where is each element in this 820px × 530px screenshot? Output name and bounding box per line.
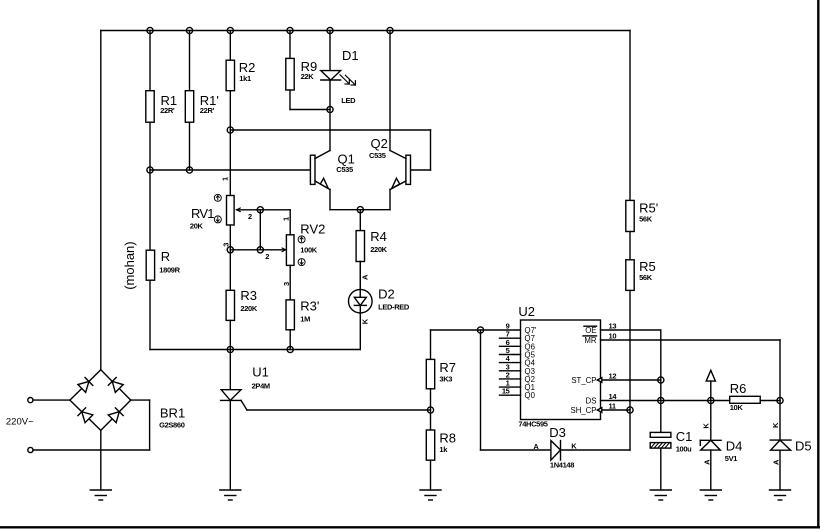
wire Q2 collector feed bbox=[389, 31, 391, 151]
svg-text:56K: 56K bbox=[639, 215, 653, 224]
wire RV2 wiper row bbox=[230, 248, 285, 252]
wire wiper to RV2 pin1 bbox=[260, 210, 290, 235]
terminal AC1 bbox=[28, 398, 33, 403]
svg-text:100K: 100K bbox=[300, 245, 317, 254]
wire D3 cathode net bbox=[561, 449, 631, 451]
wire R1' bottom bbox=[189, 122, 191, 170]
svg-text:D1: D1 bbox=[342, 48, 359, 63]
svg-text:1: 1 bbox=[221, 177, 230, 181]
junction RV2 wiper tee bbox=[257, 247, 263, 253]
label D4 anode A bbox=[702, 459, 711, 465]
junction R1' base node bbox=[186, 167, 192, 173]
resistor R5 bbox=[626, 259, 656, 290]
wire AC input 1 bbox=[33, 399, 70, 401]
label RV1 pin 3 bbox=[222, 243, 231, 247]
U2 pin 11 SH_CP bbox=[571, 402, 631, 416]
resistor R5' bbox=[626, 200, 658, 231]
U2 pin 10 MR bbox=[583, 332, 780, 346]
svg-text:1k1: 1k1 bbox=[239, 74, 251, 83]
svg-text:11: 11 bbox=[609, 402, 616, 411]
svg-text:3K3: 3K3 bbox=[439, 374, 452, 383]
wire lower rail bbox=[150, 349, 360, 351]
svg-text:SH_CP: SH_CP bbox=[571, 406, 597, 415]
U2 pin 1 Q1 bbox=[500, 379, 535, 393]
wire R5 bottom bbox=[629, 290, 631, 450]
wire R1' top bbox=[189, 31, 191, 91]
label (mohan) bbox=[122, 241, 137, 289]
capacitor C1 bbox=[650, 429, 692, 453]
resistor R6 bbox=[730, 381, 761, 412]
wire R7 bottom bbox=[430, 389, 432, 430]
wire U1 cathode bbox=[229, 400, 231, 490]
svg-text:R6: R6 bbox=[730, 381, 747, 396]
svg-text:22R': 22R' bbox=[200, 106, 215, 115]
resistor R1 bbox=[146, 91, 177, 123]
ground R8 bbox=[420, 490, 441, 500]
junction top bus bbox=[287, 27, 293, 33]
wire D2 bottom bbox=[359, 305, 361, 349]
net flag above D4 bbox=[706, 370, 715, 381]
transistor Q2 bbox=[369, 136, 411, 189]
svg-text:D2: D2 bbox=[378, 287, 395, 302]
svg-text:1M: 1M bbox=[300, 315, 310, 324]
junction R1 base node bbox=[147, 167, 153, 173]
bridge rectifier BR1 bbox=[70, 370, 185, 431]
svg-text:1k: 1k bbox=[439, 445, 448, 454]
label RV2 pin 3 bbox=[282, 282, 291, 286]
svg-text:R2: R2 bbox=[239, 60, 256, 75]
label D3 anode A bbox=[533, 442, 539, 451]
svg-text:2P4M: 2P4M bbox=[252, 381, 270, 390]
wire D5 bottom bbox=[779, 450, 781, 490]
svg-text:12: 12 bbox=[609, 372, 617, 381]
junction RV1 wiper node bbox=[257, 207, 263, 213]
diode D5 bbox=[770, 439, 811, 454]
junction emitter node bbox=[357, 207, 363, 213]
svg-text:LED-RED: LED-RED bbox=[378, 302, 410, 311]
wire R1 bottom bbox=[149, 122, 151, 170]
svg-text:R3': R3' bbox=[300, 298, 319, 313]
wire Q1 base net bbox=[150, 169, 310, 171]
svg-text:D4: D4 bbox=[726, 438, 743, 453]
resistor R3' bbox=[286, 298, 319, 330]
svg-text:13: 13 bbox=[609, 322, 617, 331]
svg-text:C535: C535 bbox=[369, 151, 386, 160]
svg-text:2: 2 bbox=[248, 212, 252, 221]
label RV1 pin 2 bbox=[248, 212, 252, 221]
svg-text:10K: 10K bbox=[730, 403, 744, 412]
wire RV2 bottom bbox=[289, 265, 291, 300]
svg-text:(mohan): (mohan) bbox=[122, 241, 137, 289]
wire AC input 2 bbox=[33, 449, 150, 451]
U2 pin 3 Q3 bbox=[500, 362, 535, 376]
resistor R bbox=[146, 249, 180, 280]
wire D1 cathode / Q1 collector bbox=[329, 80, 331, 151]
svg-text:220K: 220K bbox=[370, 245, 387, 254]
junction SH_CP node bbox=[627, 407, 633, 413]
wire R bottom bbox=[149, 280, 151, 349]
svg-text:R7: R7 bbox=[439, 360, 456, 375]
resistor R8 bbox=[426, 430, 456, 460]
resistor R3 bbox=[226, 288, 258, 320]
junction R6 right node bbox=[777, 397, 783, 403]
wire D3 anode net bbox=[481, 330, 551, 450]
junction gate node bbox=[427, 407, 433, 413]
svg-text:10: 10 bbox=[609, 332, 617, 341]
svg-text:OE: OE bbox=[585, 326, 596, 335]
svg-text:15: 15 bbox=[502, 387, 510, 396]
wire RV1 top bbox=[229, 130, 231, 196]
wire R8 bottom bbox=[430, 460, 432, 490]
ground D4 bbox=[700, 490, 721, 500]
svg-text:1809R: 1809R bbox=[159, 266, 180, 275]
junction R2 bottom node bbox=[227, 127, 233, 133]
svg-text:RV2: RV2 bbox=[300, 222, 325, 237]
resistor R2 bbox=[226, 60, 255, 91]
resistor R4 bbox=[356, 229, 388, 262]
wire R1 top bbox=[149, 31, 151, 91]
junction top bus bbox=[147, 27, 153, 33]
wire D5 top bbox=[779, 401, 781, 441]
wire emitter row bbox=[330, 209, 390, 211]
svg-text:R3: R3 bbox=[240, 288, 257, 303]
LED D2 bbox=[349, 262, 410, 314]
wire OE strap bbox=[660, 330, 662, 432]
wire R2 bottom bbox=[229, 91, 231, 130]
svg-text:D5: D5 bbox=[795, 439, 812, 454]
svg-text:R5': R5' bbox=[639, 200, 658, 215]
wire U1 anode bbox=[229, 350, 231, 390]
svg-text:ST_CP: ST_CP bbox=[571, 376, 596, 385]
svg-text:5V1: 5V1 bbox=[725, 454, 737, 463]
svg-text:LED: LED bbox=[341, 96, 356, 105]
wire RV1 bottom bbox=[229, 225, 231, 290]
svg-text:14: 14 bbox=[609, 392, 618, 401]
svg-text:220K: 220K bbox=[240, 304, 257, 313]
svg-text:R4: R4 bbox=[370, 229, 387, 244]
svg-text:R: R bbox=[161, 249, 170, 264]
wire R top bbox=[149, 170, 151, 250]
U2 pin 14 DS bbox=[586, 392, 780, 406]
svg-text:G2S860: G2S860 bbox=[159, 421, 185, 430]
wire R5'-R5 bbox=[629, 232, 631, 260]
ground BR1 bbox=[90, 490, 111, 500]
label RV1 pin 1 bbox=[221, 177, 230, 181]
svg-text:Q0: Q0 bbox=[525, 391, 536, 400]
potentiometer RV2 bbox=[286, 222, 325, 266]
junction ST_CP tap bbox=[658, 377, 664, 383]
U2 pin 9 Q7' bbox=[506, 322, 537, 336]
wire R4 top bbox=[359, 210, 361, 231]
svg-text:R5: R5 bbox=[639, 259, 656, 274]
IC U2 74HC595 bbox=[518, 304, 600, 428]
wire U1 gate row bbox=[247, 409, 431, 411]
svg-text:RV1: RV1 bbox=[191, 206, 214, 221]
svg-text:D3: D3 bbox=[549, 425, 566, 440]
wire Q7' net bbox=[431, 329, 521, 331]
wire R4 to D2 bbox=[359, 262, 361, 298]
label D5 anode A bbox=[772, 459, 781, 465]
label 220V~ bbox=[6, 417, 34, 428]
wire R2 to Q2 base bbox=[230, 130, 430, 170]
U2 pin 4 Q4 bbox=[500, 354, 536, 368]
junction D3 tap bbox=[477, 327, 483, 333]
wire bridge minus bbox=[100, 430, 102, 490]
wire D4 top bbox=[710, 381, 712, 440]
U2 pin 6 Q6 bbox=[500, 338, 535, 352]
U2 pin 2 Q2 bbox=[500, 370, 535, 384]
svg-text:U2: U2 bbox=[518, 304, 535, 319]
thyristor U1 bbox=[221, 365, 270, 410]
U2 pin 15 Q0 bbox=[500, 387, 536, 401]
ground U1 bbox=[220, 490, 241, 500]
potentiometer RV1 bbox=[190, 196, 260, 231]
ground C1 bbox=[650, 490, 671, 500]
resistor R1' bbox=[185, 91, 219, 123]
svg-text:220V~: 220V~ bbox=[6, 417, 34, 428]
wire R3' bottom bbox=[289, 330, 291, 350]
transistor Q1 bbox=[310, 151, 354, 190]
svg-text:74HC595: 74HC595 bbox=[518, 420, 547, 429]
svg-text:Q2: Q2 bbox=[371, 136, 388, 151]
terminal AC2 bbox=[28, 447, 33, 452]
label D2 cathode K bbox=[361, 318, 370, 324]
label D5 cathode K bbox=[771, 422, 780, 428]
RV2 direction marks bbox=[298, 236, 305, 266]
svg-text:22K: 22K bbox=[301, 72, 315, 81]
svg-text:1N4148: 1N4148 bbox=[550, 460, 574, 469]
junction DS tap D4 bbox=[708, 397, 714, 403]
wire bridge right vertex bbox=[131, 400, 150, 450]
label RV2 pin 2 bbox=[265, 252, 269, 261]
junction top bus bbox=[186, 27, 192, 33]
U2 pin 7 Q7 bbox=[500, 330, 535, 344]
U2 pin 12 ST_CP bbox=[571, 372, 660, 386]
wire R9 top bbox=[289, 31, 291, 59]
wire D1 anode bbox=[329, 31, 331, 71]
label RV2 pin 1 bbox=[282, 217, 291, 221]
diode D3 bbox=[549, 425, 574, 469]
resistor R9 bbox=[286, 58, 317, 90]
label D2 anode A bbox=[361, 274, 370, 280]
zener diode D4 bbox=[700, 438, 742, 463]
junction RV1 bottom tap bbox=[227, 247, 233, 253]
wire C1 bottom bbox=[660, 448, 662, 490]
svg-text:22R': 22R' bbox=[160, 106, 175, 115]
label D4 cathode K bbox=[702, 423, 711, 429]
svg-text:20K: 20K bbox=[190, 221, 204, 230]
svg-text:U1: U1 bbox=[252, 365, 269, 380]
wire R9 bottom bbox=[290, 90, 330, 110]
junction R3 bottom node bbox=[227, 346, 233, 352]
junction DS tap C1 bbox=[658, 397, 664, 403]
svg-text:C535: C535 bbox=[336, 165, 353, 174]
U2 pin 5 Q5 bbox=[500, 346, 536, 360]
wire supply drop to R5' bbox=[629, 31, 631, 201]
label D3 cathode K bbox=[571, 441, 577, 450]
ground D5 bbox=[770, 490, 791, 500]
svg-text:MR: MR bbox=[584, 336, 596, 345]
wire top supply bus bbox=[101, 30, 630, 32]
wire MR strap bbox=[779, 340, 781, 401]
wire Q1 emitter stub bbox=[329, 190, 331, 210]
svg-text:56K: 56K bbox=[639, 273, 653, 282]
wire Q2 emitter stub bbox=[389, 190, 391, 210]
wire wiper down bbox=[259, 210, 261, 250]
svg-text:DS: DS bbox=[586, 397, 597, 406]
junction top bus bbox=[387, 27, 393, 33]
svg-text:1: 1 bbox=[282, 217, 291, 221]
U2 pin 13 OE bbox=[584, 322, 661, 336]
svg-text:R8: R8 bbox=[439, 430, 456, 445]
svg-text:BR1: BR1 bbox=[160, 406, 185, 421]
svg-text:100u: 100u bbox=[676, 444, 692, 453]
wire left supply bus bbox=[100, 31, 102, 370]
svg-text:2: 2 bbox=[265, 252, 269, 261]
junction top bus bbox=[227, 27, 233, 33]
svg-text:C1: C1 bbox=[676, 429, 693, 444]
junction top bus bbox=[327, 27, 333, 33]
junction D1-R9 node bbox=[327, 106, 333, 112]
wire R7 top bbox=[430, 330, 432, 359]
wire D4 bottom bbox=[710, 450, 712, 490]
wire R3 bottom bbox=[229, 320, 231, 349]
junction R3' bottom node bbox=[287, 346, 293, 352]
RV1 direction marks bbox=[214, 194, 221, 223]
resistor R7 bbox=[426, 359, 456, 388]
LED D1 bbox=[321, 48, 359, 105]
wire R2 top bbox=[229, 31, 231, 61]
